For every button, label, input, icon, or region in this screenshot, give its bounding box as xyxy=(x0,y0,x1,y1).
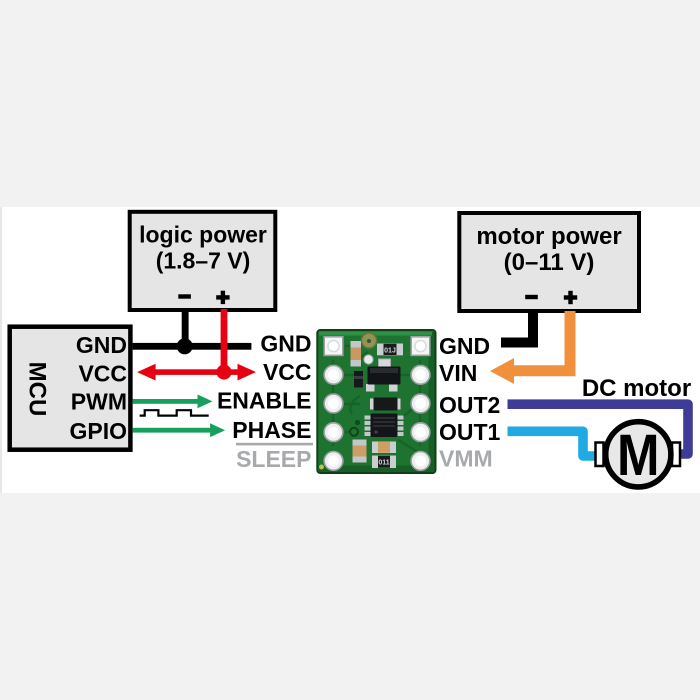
transistor Q1 (SOT23) xyxy=(366,367,401,392)
node: VCC junction dot (red) xyxy=(217,365,232,380)
svg-text:ENABLE: ENABLE xyxy=(217,387,312,413)
svg-text:M: M xyxy=(617,423,660,488)
svg-text:logic power: logic power xyxy=(139,222,267,248)
pad VMM (round) xyxy=(411,452,430,471)
logic power plus terminal xyxy=(216,291,229,304)
pad GND right (square) xyxy=(411,337,430,356)
pad SLEEP (round) xyxy=(324,452,343,471)
wire: GPIO to PHASE arrow (green) xyxy=(133,423,226,437)
left photo edge line xyxy=(0,207,2,493)
fiducial dot xyxy=(319,465,324,470)
motor power plus terminal xyxy=(564,291,577,304)
driver pin label: SLEEP (inactive, with overline) xyxy=(236,443,313,472)
motor body circle xyxy=(606,422,671,487)
pad OUT1 (round) xyxy=(411,423,430,442)
resistor R3 (black chip 011) xyxy=(372,456,396,469)
svg-text:VMM: VMM xyxy=(439,445,493,471)
DRV8838 carrier board xyxy=(317,330,435,473)
MCU box U1 xyxy=(10,327,131,450)
resistor R2 (tan chip) xyxy=(372,442,396,454)
svg-text:PHASE: PHASE xyxy=(232,417,311,443)
svg-text:GND: GND xyxy=(439,333,490,359)
svg-text:(1.8–7 V): (1.8–7 V) xyxy=(156,248,251,274)
pad VCC (round) xyxy=(324,365,343,384)
svg-text:GPIO: GPIO xyxy=(69,418,127,444)
capacitor C1 (tan, vertical) xyxy=(351,341,362,367)
svg-text:VIN: VIN xyxy=(439,360,477,386)
motor power minus terminal xyxy=(525,295,538,299)
node: GND junction dot xyxy=(177,338,193,354)
PWM squarewave symbol xyxy=(140,410,209,415)
wire: motor power minus to GND (black, elbow) xyxy=(501,311,533,343)
wire: VIN arrowhead (orange) xyxy=(490,358,514,384)
pad ENABLE (round) xyxy=(324,394,343,413)
pad VIN (round) xyxy=(411,365,430,384)
DC motor M1 xyxy=(596,422,681,488)
svg-text:MCU: MCU xyxy=(23,362,50,417)
motor terminal left xyxy=(596,443,604,467)
svg-text:GND: GND xyxy=(260,330,311,356)
svg-text:VCC: VCC xyxy=(263,359,312,385)
svg-text:SLEEP: SLEEP xyxy=(236,446,311,472)
svg-text:GND: GND xyxy=(76,332,127,358)
wire: GND bus MCU to driver (black) xyxy=(133,343,252,350)
wire: OUT1 to motor (light blue) xyxy=(508,431,598,456)
wire: PWM to ENABLE arrow (green) xyxy=(133,395,213,409)
wire: logic power minus to GND bus (black) xyxy=(182,309,189,350)
motor power supply box xyxy=(459,213,639,311)
background bottom gray band xyxy=(0,493,700,700)
logic power supply box xyxy=(130,212,276,310)
wire: motor power plus to VIN (orange, elbow) xyxy=(512,311,570,371)
svg-text:motor power: motor power xyxy=(476,223,621,250)
svg-text:OUT2: OUT2 xyxy=(439,392,500,418)
svg-text:VCC: VCC xyxy=(78,360,127,386)
wire: logic power plus to VCC (red) xyxy=(221,309,228,375)
via (olive) xyxy=(361,333,376,348)
background white center band xyxy=(0,207,700,493)
IC U1 (DRV8838 SOIC-8) xyxy=(365,414,404,438)
svg-text:011: 011 xyxy=(378,460,389,467)
small chip below Q1 xyxy=(370,398,401,411)
small pad xyxy=(364,355,373,364)
resistor R1 (black chip 01J) xyxy=(377,344,403,356)
wire: OUT2 to motor (dark blue) xyxy=(508,404,689,454)
background top gray band xyxy=(0,0,700,207)
pad PHASE (round) xyxy=(324,423,343,442)
logic power minus terminal xyxy=(178,294,191,298)
pad GND left (square, pin 1) xyxy=(324,337,343,356)
svg-text:DC motor: DC motor xyxy=(582,375,691,402)
svg-text:OUT1: OUT1 xyxy=(439,419,501,445)
svg-text:(0–11 V): (0–11 V) xyxy=(504,249,595,276)
motor terminal right xyxy=(672,443,680,467)
svg-text:PWM: PWM xyxy=(71,389,127,415)
svg-text:01J: 01J xyxy=(384,348,396,355)
small pad xyxy=(379,359,391,369)
via dot xyxy=(355,420,360,425)
unplated hole xyxy=(350,428,358,436)
pad OUT2 (round) xyxy=(411,394,430,413)
capacitor C2 (tan, vertical, bottom-left) xyxy=(353,440,367,463)
pcb trace squiggles xyxy=(333,346,420,452)
wire: VCC double arrow (red) xyxy=(137,364,256,381)
diode D1 (small black chip) xyxy=(354,371,363,388)
